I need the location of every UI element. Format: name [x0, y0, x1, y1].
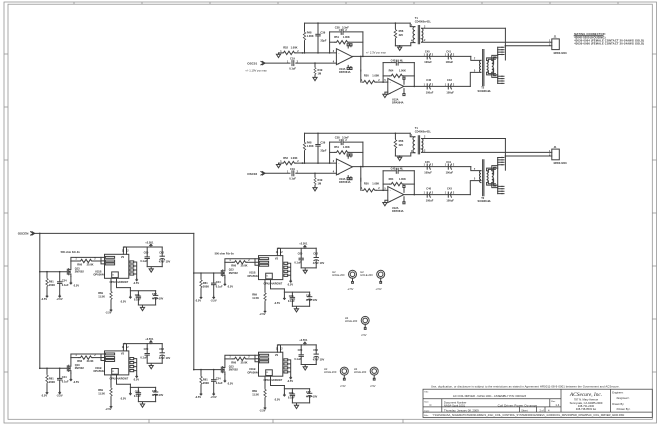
- bus node: [39, 271, 41, 273]
- svg-text:2.5V: 2.5V: [340, 384, 346, 388]
- capacitor C38 3.3nF: [330, 31, 341, 33]
- svg-text:Coil Driven Power Op amps: Coil Driven Power Op amps: [498, 404, 538, 408]
- resistor R50 1.00K: [362, 80, 376, 83]
- svg-text:43650-0216: 43650-0216: [553, 52, 567, 55]
- ground at R56: [399, 45, 401, 47]
- svg-text:Engineer:: Engineer:: [612, 390, 623, 394]
- T1 secondary wires: [422, 27, 506, 29]
- svg-text:R51: R51: [334, 35, 339, 39]
- svg-text:OPA564A: OPA564A: [339, 70, 351, 74]
- feedback left rail wire: [329, 32, 331, 53]
- power stage sub-circuit 3 (duplicate): [39, 337, 170, 411]
- svg-text:NL: NL: [400, 58, 404, 62]
- svg-text:1.00K: 1.00K: [372, 73, 379, 77]
- svg-text:VS: VS: [121, 256, 125, 259]
- wire stub to stage 2: [360, 56, 362, 71]
- +2.5V1 power flag: [150, 244, 152, 247]
- svg-text:<Drawn By>: <Drawn By>: [616, 407, 631, 411]
- capacitor C68 0.1uF: [130, 290, 155, 292]
- resistor R49 1M: [314, 63, 316, 67]
- svg-text:100uF: 100uF: [424, 60, 432, 64]
- decoupling 2 ground: [138, 305, 155, 307]
- svg-text:1M: 1M: [318, 71, 322, 75]
- left bus wire: [39, 233, 41, 368]
- svg-text:1.00K: 1.00K: [291, 46, 298, 50]
- op-amp U13A OPA564A: [336, 49, 352, 65]
- capacitor C45 100uF: [427, 54, 430, 59]
- svg-text:500 ohm Fdr-0x: 500 ohm Fdr-0x: [61, 250, 81, 254]
- svg-text:43030-0006 (FEMALE CONTACT 20-: 43030-0006 (FEMALE CONTACT 20-24AWG GOLD…: [574, 42, 644, 46]
- svg-text:Thursday, January 08, 2009: Thursday, January 08, 2009: [444, 409, 479, 413]
- resistor R52 1.00K: [279, 52, 282, 54]
- svg-text:0.1uF: 0.1uF: [289, 67, 296, 71]
- svg-text:+2.5V1: +2.5V1: [145, 240, 154, 244]
- -2.5V rail flag: [46, 295, 48, 297]
- svg-text:R66: R66: [77, 262, 82, 266]
- resistor R66 20.0K: [71, 260, 79, 262]
- feedback right rail wire: [362, 32, 364, 57]
- node: [302, 52, 304, 54]
- svg-text:-2.5V: -2.5V: [41, 297, 47, 301]
- connector J1 43650-0216: [552, 39, 560, 50]
- svg-text:C68: C68: [135, 293, 140, 297]
- -2.5V feed to decoupling: [129, 288, 131, 296]
- T2 secondary fan-out wires: [487, 58, 498, 61]
- power stage sub-circuit 2 (duplicate): [193, 242, 324, 316]
- svg-text:+/- 1.19V p-p max: +/- 1.19V p-p max: [245, 69, 267, 73]
- svg-text:-2.5V: -2.5V: [347, 287, 353, 291]
- resistor R56 220: [394, 23, 396, 28]
- svg-text:-2.5V: -2.5V: [133, 281, 139, 285]
- top rail wire: [305, 22, 411, 24]
- svg-text:Date:: Date:: [424, 409, 430, 412]
- svg-text:OSC01: OSC01: [247, 61, 257, 65]
- OSC02 label correction: [246, 171, 258, 175]
- output wire row 1: [352, 55, 470, 57]
- svg-text:1.00K: 1.00K: [343, 35, 350, 39]
- svg-text:47uF 10V: 47uF 10V: [159, 260, 171, 264]
- svg-text:2N7002: 2N7002: [75, 270, 85, 274]
- svg-text:SX4900-BL: SX4900-BL: [478, 89, 492, 93]
- svg-text:CD4000x-01L: CD4000x-01L: [415, 19, 432, 23]
- svg-text:C19: C19: [290, 57, 295, 61]
- wire: [296, 62, 337, 64]
- transformer T2 SX4900-BL: [483, 50, 484, 86]
- svg-text:11.5K: 11.5K: [98, 295, 105, 299]
- power pin stubs U12A: [403, 79, 405, 93]
- svg-text:-2.5V: -2.5V: [56, 297, 62, 301]
- output wire row 2: [404, 85, 471, 87]
- title block outline: [423, 389, 652, 417]
- ground: [313, 77, 317, 80]
- svg-text:33pF: 33pF: [320, 39, 326, 43]
- svg-text:C60: C60: [144, 250, 149, 254]
- wire to inverting input: [296, 52, 337, 54]
- channel B stage 1 (U15A, T3, T4, J2, duplicate): [247, 126, 567, 203]
- svg-text:R69: R69: [98, 291, 103, 295]
- svg-text:+: +: [338, 62, 340, 66]
- svg-text:Sheet: Sheet: [521, 409, 528, 412]
- resistor R48 1.00K: [304, 23, 306, 31]
- resistor R69 11.5K: [110, 290, 112, 300]
- ground at R52: [278, 53, 280, 54]
- svg-text:C67: C67: [152, 292, 157, 296]
- svg-text:C45: C45: [425, 50, 430, 54]
- wire from output node down to R50: [360, 70, 362, 82]
- mounting hole H5: [324, 367, 348, 380]
- svg-text:AC COIL DRIVER - NASA 1001 - A: AC COIL DRIVER - NASA 1001 - ASSEMBLY P/…: [453, 394, 527, 398]
- svg-text:OPA564A: OPA564A: [392, 101, 404, 105]
- op-amp U12A OPA564A: [388, 78, 404, 94]
- svg-text:-: -: [338, 51, 339, 55]
- capacitor C62 47uF 10V: [160, 256, 165, 259]
- mounting hole H6: [354, 367, 378, 380]
- svg-text:C: C: [429, 403, 431, 407]
- svg-text:2.5V: 2.5V: [370, 384, 376, 388]
- svg-text:ACSecure, Inc.: ACSecure, Inc.: [569, 392, 602, 398]
- svg-text:NASA-Scott 1001: NASA-Scott 1001: [444, 404, 466, 408]
- svg-text:C43: C43: [447, 78, 452, 82]
- IC U11B OPA564A body: [105, 254, 129, 278]
- wire jog to T2 primary: [471, 56, 481, 60]
- capacitor C67 47uF 10V: [153, 295, 158, 298]
- right bus wire: [193, 233, 195, 369]
- resistor R61 200K: [46, 272, 48, 278]
- svg-text:0.1uF: 0.1uF: [140, 259, 147, 263]
- node: [39, 233, 41, 235]
- svg-text:1.00K: 1.00K: [307, 34, 314, 38]
- svg-text:R50: R50: [364, 73, 369, 77]
- svg-text:-2.5V: -2.5V: [120, 300, 126, 304]
- svg-text:Y:\NASA\NASA_SCHEMATICS\000312: Y:\NASA\NASA_SCHEMATICS\0003123REV1_4\AC…: [433, 413, 625, 417]
- mating connector note: [574, 32, 644, 45]
- svg-text:-2.5V: -2.5V: [73, 283, 79, 287]
- svg-text:20.0K: 20.0K: [87, 262, 94, 266]
- capacitor C24 0.1uF: [59, 272, 61, 282]
- power stage sub-circuit (U11B OPA564A): [39, 240, 170, 314]
- svg-text:Drawn By:: Drawn By:: [612, 402, 624, 406]
- wire into IC enable pins: [101, 257, 105, 264]
- IC top pins to +2.5V rail: [123, 247, 162, 254]
- source to -2.5V: [70, 277, 72, 282]
- svg-text:File:: File:: [424, 415, 429, 417]
- channel B stage 2 (U14A, duplicate): [361, 167, 481, 213]
- capacitor C41 100uF: [448, 54, 451, 59]
- svg-text:C41: C41: [446, 50, 451, 54]
- svg-text:220: 220: [399, 33, 404, 37]
- mounting hole H3: [360, 270, 384, 283]
- svg-text:Use, duplication, or disclosur: Use, duplication, or disclosure is subje…: [431, 384, 620, 388]
- mounting hole H4: [345, 316, 369, 329]
- svg-text:OSCEN: OSCEN: [18, 232, 29, 236]
- wire to gate: [40, 271, 67, 273]
- decoupling ground: [147, 267, 162, 269]
- svg-text:1.00K: 1.00K: [399, 69, 406, 73]
- svg-text:100uF: 100uF: [426, 90, 434, 94]
- -2.5V rail flag: [59, 295, 61, 297]
- wire jog to T2 primary bottom: [470, 72, 481, 86]
- svg-text:47uF 10V: 47uF 10V: [152, 297, 164, 301]
- wire: [265, 62, 290, 64]
- feedback left rail U12A: [382, 63, 384, 83]
- capacitor C39 33pF: [317, 23, 319, 34]
- svg-text:C24: C24: [62, 279, 67, 283]
- capacitor C19 0.1uF: [292, 61, 294, 66]
- capacitor C42 NL: [383, 62, 395, 64]
- feedback right rail U12A: [413, 63, 415, 87]
- svg-text:R56: R56: [399, 29, 404, 33]
- svg-text:C39: C39: [320, 31, 325, 35]
- svg-text:100uF: 100uF: [446, 90, 454, 94]
- svg-text:200K: 200K: [49, 283, 55, 287]
- ferrite bead bypass wire: [71, 257, 101, 261]
- IC right side pins to -2.5V: [130, 261, 134, 275]
- power stage sub-circuit 4 (duplicate): [193, 338, 324, 412]
- svg-text:+: +: [389, 91, 391, 95]
- non-inverting input to ground: [385, 92, 388, 94]
- svg-text:R48: R48: [307, 30, 312, 34]
- svg-text:2.5V: 2.5V: [361, 333, 367, 337]
- svg-text:R64: R64: [389, 69, 394, 73]
- node: [314, 62, 316, 64]
- svg-text:-: -: [390, 80, 391, 84]
- capacitor C40 100uF: [427, 84, 430, 89]
- transistor Q13 2N7002: [67, 261, 71, 277]
- OSCEN wire: [35, 232, 194, 234]
- title block: [423, 384, 652, 417]
- svg-text:408-738-8503 fax: 408-738-8503 fax: [576, 407, 597, 411]
- svg-text:100uF: 100uF: [446, 60, 454, 64]
- svg-text:1.4: 1.4: [555, 403, 559, 407]
- channel A stage 1 (U13A, T1, T2, J1): [247, 16, 567, 93]
- resistor R64 1.00K: [383, 75, 390, 77]
- svg-text:0.1uF: 0.1uF: [62, 283, 69, 287]
- svg-text:OPA564AIRGWT: OPA564AIRGWT: [110, 281, 129, 284]
- resistor R51 1.00K: [330, 41, 335, 43]
- svg-text:OPA564A: OPA564A: [93, 273, 105, 277]
- svg-text:500 ohm Fdr-0x: 500 ohm Fdr-0x: [215, 252, 235, 256]
- svg-text:R49: R49: [318, 68, 323, 72]
- svg-text:+/- 2.3V p-p max: +/- 2.3V p-p max: [366, 50, 387, 54]
- svg-text:R52: R52: [283, 46, 288, 50]
- svg-text:V-: V-: [112, 274, 114, 276]
- svg-text:C42: C42: [391, 58, 396, 62]
- svg-text:of: of: [542, 409, 544, 412]
- svg-text:-2.5V: -2.5V: [105, 311, 111, 315]
- svg-text:<Engineer>: <Engineer>: [616, 396, 630, 400]
- svg-text:OSC02: OSC02: [247, 172, 257, 176]
- capacitor C43 100uF: [448, 84, 451, 89]
- svg-text:C40: C40: [426, 78, 431, 82]
- svg-text:R61: R61: [49, 280, 54, 284]
- svg-text:787 N. Mary Avenue: 787 N. Mary Avenue: [574, 397, 599, 401]
- svg-text:0.1uF: 0.1uF: [134, 298, 141, 302]
- mounting hole H2: [332, 270, 356, 283]
- capacitor C60 0.1uF: [146, 247, 148, 257]
- svg-text:C62: C62: [159, 250, 164, 254]
- svg-text:-2.5V: -2.5V: [375, 287, 381, 291]
- IC bottom pins: [111, 278, 130, 290]
- channel A stage 2 (U12A): [361, 58, 481, 104]
